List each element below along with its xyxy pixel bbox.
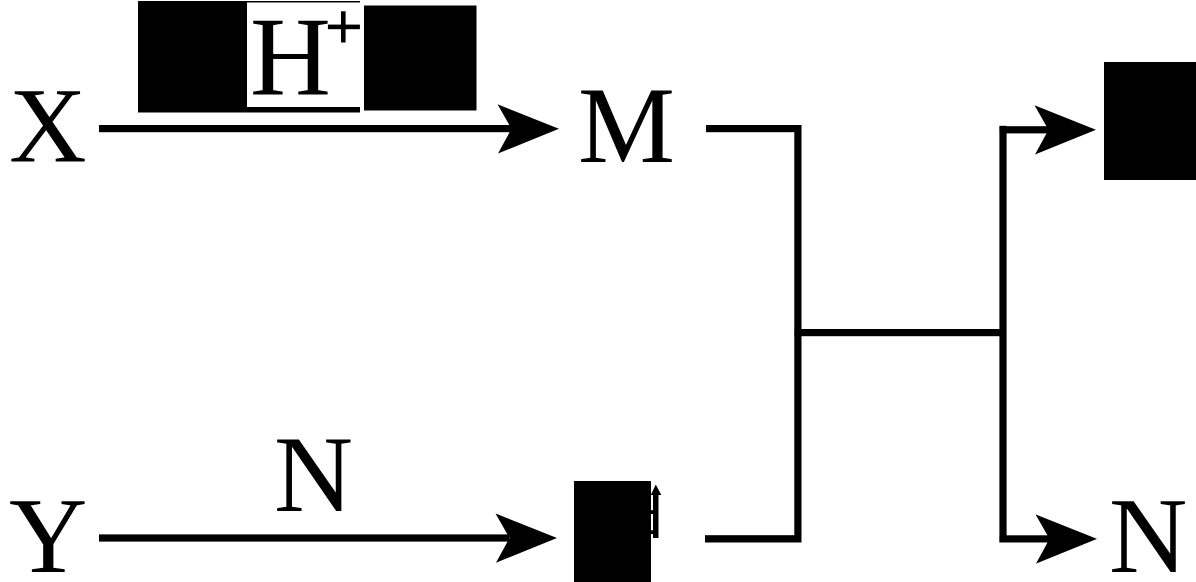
white label box over redaction [247, 3, 364, 108]
wire: left bracket vertical [794, 125, 801, 543]
redaction box A (above X arrow, left) [138, 1, 360, 113]
arrowhead of X to M arrow [498, 104, 560, 153]
redaction box E (bottom middle product) [574, 481, 651, 582]
svg-text:N: N [1109, 476, 1187, 582]
svg-text:H: H [250, 0, 331, 120]
svg-text:N: N [274, 413, 353, 535]
arrowhead bottom right [1036, 514, 1098, 563]
svg-text:X: X [9, 67, 87, 186]
redaction box D (top right product) [1104, 62, 1196, 180]
glyph: up arrow partially covered by box E [653, 492, 659, 538]
wire: right bracket vertical [999, 126, 1006, 543]
wire: right bracket top horizontal [999, 126, 1050, 133]
svg-text:M: M [578, 65, 675, 186]
wire: right bracket bottom horizontal [999, 535, 1050, 542]
arrowhead top right [1035, 105, 1097, 154]
wire: arrow shaft Y to box [99, 534, 509, 541]
wire: middle connector between brackets [794, 329, 1006, 336]
svg-text:Y: Y [9, 476, 87, 582]
wire: box E to left bracket [705, 535, 795, 542]
redaction box C (above X arrow, right) [364, 6, 477, 111]
wire: left bracket bottom horizontal [705, 535, 802, 542]
wire: arrow shaft X to M [99, 125, 512, 132]
wire: left bracket top horizontal from M [706, 125, 802, 132]
arrowhead of Y arrow [496, 514, 558, 563]
